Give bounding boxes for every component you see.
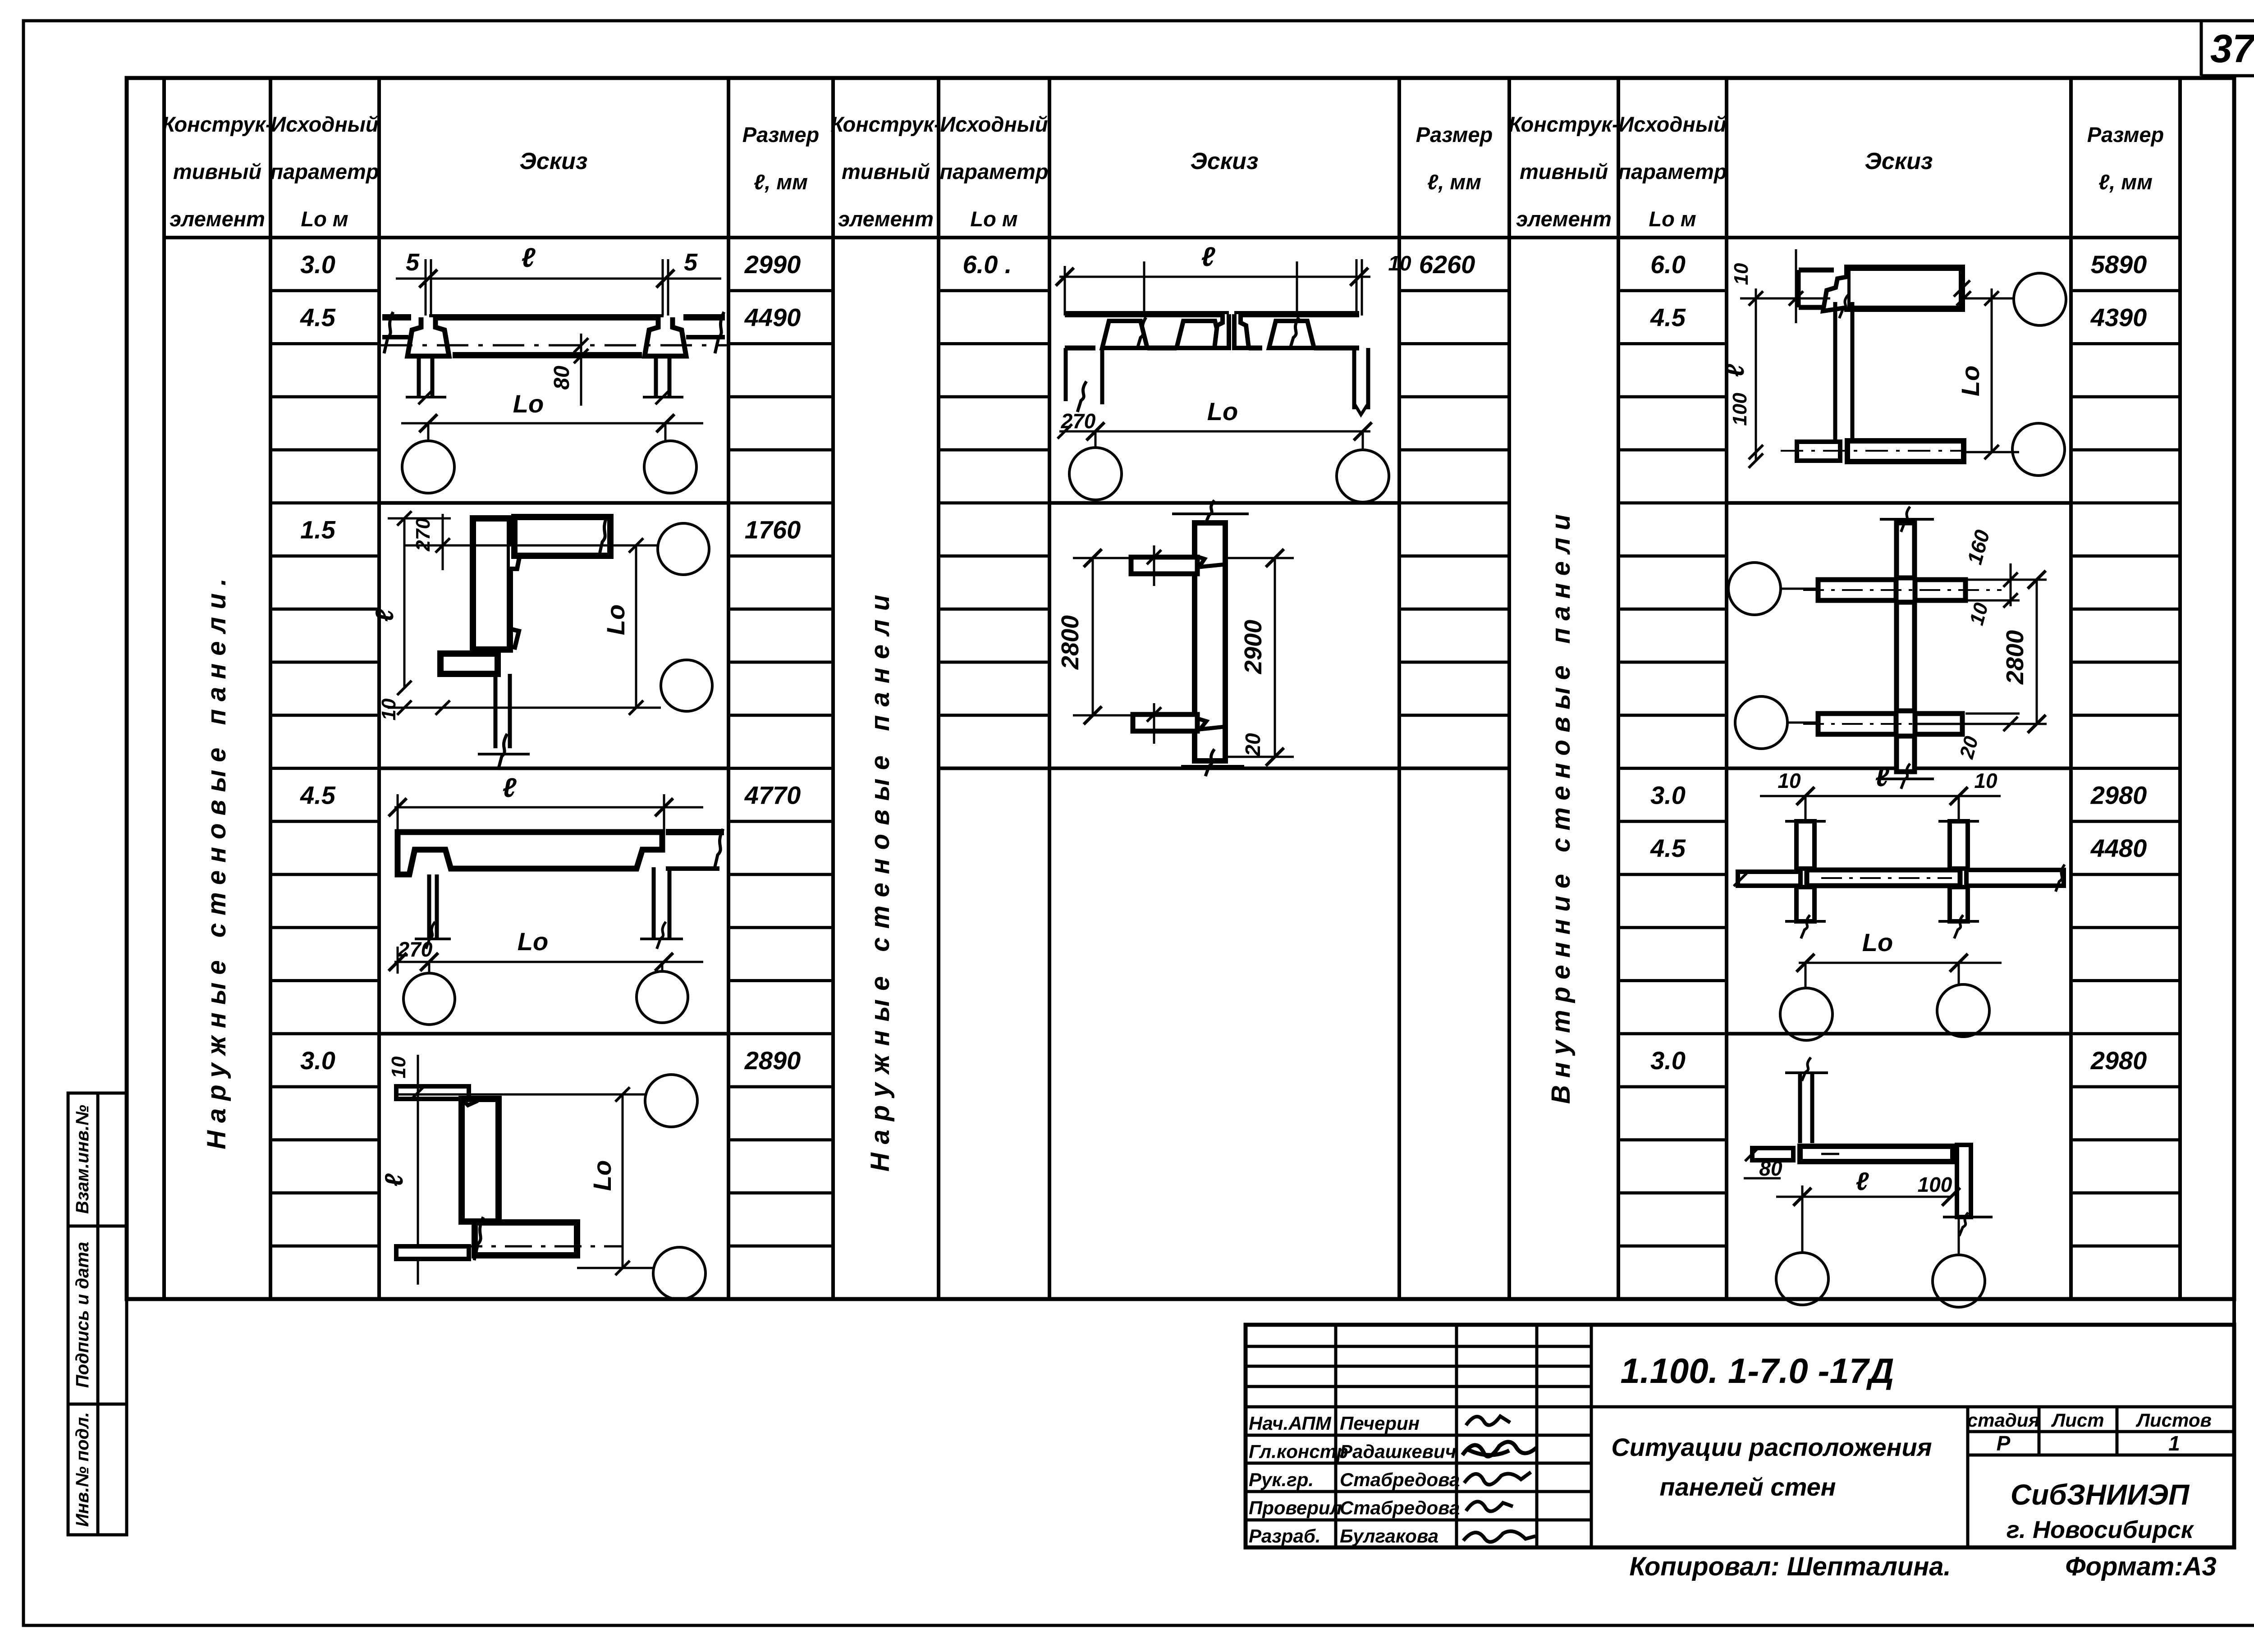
staff rows [1249,1413,1460,1547]
ladder row lines group1 [270,291,833,1246]
svg-text:Нач.АПМ: Нач.АПМ [1249,1413,1332,1434]
svg-text:Lо м: Lо м [970,207,1017,231]
svg-text:Эскиз: Эскиз [1865,148,1933,174]
svg-text:6.0 .: 6.0 . [963,250,1012,279]
svg-text:Lо: Lо [1207,397,1238,426]
svg-text:Инв.№ подл.: Инв.№ подл. [73,1412,92,1527]
svg-text:Размер: Размер [2087,123,2164,146]
left margin stamp strip [68,1093,127,1535]
svg-text:Исходный: Исходный [1618,112,1726,136]
svg-text:ℓ, мм: ℓ, мм [754,170,808,194]
svg-text:Исходный: Исходный [270,112,378,136]
svg-text:Формат:А3: Формат:А3 [2065,1552,2217,1581]
svg-text:Булгакова: Булгакова [1340,1525,1439,1547]
svg-text:4480: 4480 [2090,834,2147,862]
svg-text:4.5: 4.5 [300,303,336,332]
svg-text:Лист: Лист [2051,1409,2104,1431]
svg-text:ℓ, мм: ℓ, мм [1427,170,1481,194]
svg-text:Стабредова: Стабредова [1340,1497,1460,1519]
svg-text:Конструк-: Конструк- [1508,112,1619,136]
svg-text:Печерин: Печерин [1340,1413,1420,1434]
footer: Копировал: Шепталина. [1629,1552,1951,1581]
svg-text:2800: 2800 [2002,630,2029,685]
svg-text:1760: 1760 [745,516,801,544]
svg-text:10: 10 [378,698,400,720]
svg-text:Разраб.: Разраб. [1249,1525,1321,1547]
svg-text:Lо: Lо [588,1160,616,1191]
svg-text:5: 5 [684,249,698,276]
svg-text:2800: 2800 [1057,615,1084,670]
svg-text:4490: 4490 [744,303,801,332]
svg-text:Размер: Размер [742,123,819,146]
svg-text:Эскиз: Эскиз [520,148,588,174]
svg-text:3.0: 3.0 [300,250,335,279]
svg-text:ℓ: ℓ [1721,363,1749,377]
svg-text:3.0: 3.0 [300,1046,335,1075]
svg-text:тивный: тивный [173,160,261,183]
svg-text:Lо: Lо [513,389,544,418]
svg-text:Рук.гр.: Рук.гр. [1249,1469,1314,1490]
svg-text:2990: 2990 [744,250,801,279]
svg-text:4.5: 4.5 [1650,834,1686,862]
svg-text:4770: 4770 [744,781,801,809]
parameter and size values [300,250,2147,1075]
svg-text:Внутренние стеновые панели: Внутренние стеновые панели [1546,507,1576,1104]
svg-text:100: 100 [1918,1173,1952,1196]
svg-text:80: 80 [1759,1157,1782,1180]
svg-text:г. Новосибирск: г. Новосибирск [2007,1516,2194,1543]
svg-text:Стабредова: Стабредова [1340,1469,1460,1490]
svg-text:100: 100 [1729,393,1751,426]
svg-text:5: 5 [406,249,420,276]
svg-text:6.0: 6.0 [1650,250,1686,279]
svg-text:Lо: Lо [1862,928,1893,956]
svg-text:1: 1 [2168,1432,2180,1455]
svg-text:1.5: 1.5 [300,516,336,544]
svg-text:параметр: параметр [1618,160,1727,183]
sketch G2-2: exterior wall horizontal joint section (2800/2900) [1057,500,1294,776]
svg-text:4.5: 4.5 [1650,303,1686,332]
ladder row lines group3 [1618,291,2180,1246]
svg-text:Lо м: Lо м [1649,207,1696,231]
svg-text:Ситуации расположения: Ситуации расположения [1611,1433,1932,1461]
footer: Формат:А3 [2065,1552,2217,1581]
group label: Внутренние стеновые панели (group 3) [1546,507,1576,1104]
svg-text:1.100. 1-7.0 -17Д: 1.100. 1-7.0 -17Д [1620,1351,1894,1391]
svg-text:тивный: тивный [1520,160,1608,183]
svg-text:ℓ: ℓ [522,243,536,273]
svg-text:37: 37 [2210,26,2254,71]
svg-text:ℓ, мм: ℓ, мм [2098,170,2153,194]
title: Ситуации расположения панелей стен [1611,1433,1932,1501]
svg-text:Наружные стеновые панели.: Наружные стеновые панели. [202,571,231,1149]
svg-text:ℓ: ℓ [1875,762,1890,792]
table header bottom line [164,236,2180,239]
svg-text:панелей стен: панелей стен [1659,1473,1836,1501]
svg-text:ℓ: ℓ [380,1173,408,1186]
title block frame [1246,1299,2234,1547]
svg-text:6260: 6260 [1419,250,1475,279]
svg-text:4.5: 4.5 [300,781,336,809]
sketch G3-2: interior wall cross joint plan (2800) [1728,507,2047,789]
svg-text:Листов: Листов [2135,1409,2212,1431]
svg-text:10: 10 [1778,769,1801,792]
sketch G3-1: interior wall corner joint plan (6.0m) [1721,249,2066,476]
svg-text:элемент: элемент [838,207,934,231]
sketch G2-1: exterior wall panel joint plan (6.0m) [1056,242,1411,502]
stage/sheet headers [1967,1409,2212,1431]
sketch cell divider lines group1 [379,503,728,1034]
table outer frame [127,78,2234,1299]
svg-text:элемент: элемент [1516,207,1612,231]
svg-text:10: 10 [1388,252,1411,275]
svg-text:Размер: Размер [1416,123,1493,146]
sketch G3-4: interior wall tee joint plan (3.0m) [1744,1057,1993,1307]
sketch G1-3: exterior wall panel elevation joint [389,773,724,1025]
sketch cell divider lines group3 [1727,503,2071,1034]
svg-text:ℓ: ℓ [1201,242,1216,272]
svg-text:ℓ: ℓ [1856,1167,1869,1195]
svg-text:Lо: Lо [518,927,548,956]
svg-text:Копировал: Шепталина.: Копировал: Шепталина. [1629,1552,1951,1581]
svg-text:Конструк-: Конструк- [162,112,272,136]
svg-text:Гл.констр: Гл.констр [1249,1441,1348,1462]
svg-text:2900: 2900 [1240,620,1267,674]
table column lines [164,78,2180,1299]
sheet number box 37 [2201,21,2254,76]
svg-text:Наружные стеновые панели: Наружные стеновые панели [866,586,895,1172]
organization СибЗНИИЭП [2007,1478,2194,1543]
svg-text:СибЗНИИЭП: СибЗНИИЭП [2011,1478,2190,1511]
svg-text:10: 10 [1730,263,1752,285]
svg-text:4390: 4390 [2090,303,2147,332]
group label: Наружные стеновые панели. (group 1) [202,571,231,1149]
svg-text:Взам.инв.№: Взам.инв.№ [73,1105,92,1214]
svg-text:параметр: параметр [939,160,1048,183]
svg-text:3.0: 3.0 [1650,1046,1686,1075]
svg-text:Lо: Lо [1956,366,1984,396]
svg-text:80: 80 [550,366,574,390]
svg-text:Подпись и дата: Подпись и дата [73,1242,92,1388]
sketch G1-1: exterior wall panel horizontal joint plan [381,243,727,493]
svg-text:элемент: элемент [170,207,265,231]
svg-text:Lо: Lо [601,604,630,635]
svg-text:параметр: параметр [270,160,379,183]
signatures [1462,1416,1536,1542]
svg-text:5890: 5890 [2091,250,2147,279]
strip label Подпись и дата [73,1242,92,1388]
svg-text:Эскиз: Эскиз [1191,148,1259,174]
svg-text:2980: 2980 [2090,781,2147,809]
svg-text:ℓ: ℓ [370,608,399,622]
sketch G1-4: exterior wall tee joint plan [380,1055,706,1300]
svg-text:10: 10 [388,1056,410,1078]
svg-text:10: 10 [1974,769,1997,792]
stage/sheet values [1997,1432,2180,1455]
svg-text:2890: 2890 [744,1046,801,1075]
svg-text:20: 20 [1241,733,1264,757]
svg-text:Lо м: Lо м [301,207,348,231]
svg-text:Исходный: Исходный [940,112,1048,136]
sketch G3-3: interior wall panel joints plan (10-l-10) [1734,762,2065,1040]
header texts [162,112,2164,231]
svg-text:тивный: тивный [842,160,930,183]
svg-text:2980: 2980 [2090,1046,2147,1075]
group label: Наружные стеновые панели (group 2) [866,586,895,1172]
document number 1.100.1-7.0-17Д [1620,1351,1894,1391]
svg-text:3.0: 3.0 [1650,781,1686,809]
sketch G1-2: exterior wall corner joint plan [370,511,712,770]
strip label Взам.инв.№ [73,1105,92,1214]
svg-text:Проверил: Проверил [1249,1497,1342,1519]
ladder row lines group2 [939,291,1509,715]
svg-text:Радашкевич: Радашкевич [1340,1441,1456,1462]
sketch cell divider lines group2 [939,503,1509,769]
svg-text:стадия: стадия [1967,1409,2039,1431]
svg-text:Конструк-: Конструк- [830,112,941,136]
svg-text:ℓ: ℓ [503,773,517,803]
svg-text:Р: Р [1997,1432,2011,1455]
strip label Инв.№ подл. [73,1412,92,1527]
